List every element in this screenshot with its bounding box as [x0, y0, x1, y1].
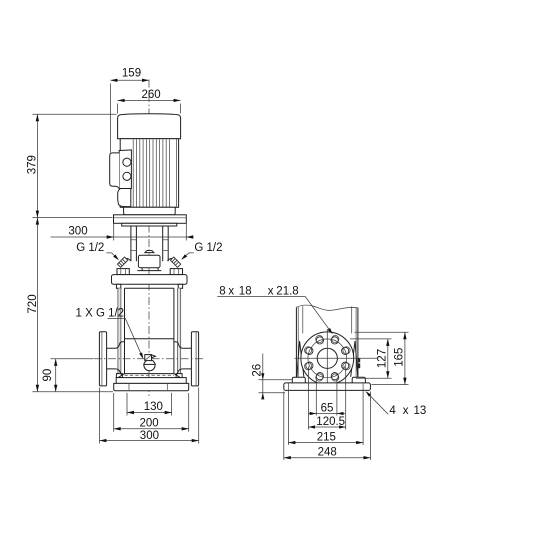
pump head flange: [112, 275, 188, 285]
dimension 159 line: [110, 79, 149, 81]
bolt circle: [308, 339, 347, 378]
side view body outer lines: [296, 307, 358, 377]
svg-text:159: 159: [122, 68, 141, 80]
motor cooling fins: [133, 139, 169, 207]
motor adapter ring: [124, 207, 176, 215]
dimension 120.5 line: [308, 426, 345, 428]
dimension 200 line: [114, 428, 189, 430]
dimension 720 bottom extension: [32, 391, 113, 393]
dimension 300 extension lines (port to port): [99, 388, 198, 444]
dimension 200 extension lines: [114, 393, 189, 432]
vertical centerline of pump front view: [148, 80, 150, 397]
port horizontal centerline: [94, 358, 205, 360]
gusset right: [351, 341, 358, 377]
dimension 720 line: [36, 218, 38, 392]
coupling guard right: [163, 226, 169, 261]
dimension 127 extension lines: [350, 339, 392, 378]
pump head contour right: [167, 258, 171, 260]
svg-text:165: 165: [394, 348, 406, 367]
svg-text:130: 130: [144, 401, 163, 413]
hidden line at base (dashed): [125, 374, 174, 376]
suction flange left (edge view): [99, 332, 106, 386]
staybolt right: [178, 288, 181, 373]
flange bolt holes 8 x 18 (doubled spot-face circles): [342, 347, 349, 354]
dimension 260 extension lines: [118, 104, 181, 114]
foot left side view: [292, 377, 305, 383]
staybolt washer left under flange: [116, 284, 120, 288]
shaft coupling block: [138, 255, 160, 268]
svg-text:G 1/2: G 1/2: [194, 242, 222, 254]
motor fan cover cap: [118, 114, 181, 139]
svg-text:200: 200: [140, 417, 159, 429]
dimension 248 extension lines: [284, 392, 371, 461]
svg-text:21.8: 21.8: [276, 286, 298, 298]
staybolt hex nut right: [170, 269, 182, 275]
coupling lower neck: [137, 268, 161, 271]
dimension 215 line: [288, 442, 363, 444]
motor stool lower plate: [122, 223, 177, 226]
side view body inner lines: [298, 306, 356, 377]
dimension 65 extension lines: [316, 379, 337, 416]
flange bore circle: [317, 348, 337, 368]
dimension 120.5 extension lines: [308, 367, 345, 430]
dimension 165 extension lines: [354, 332, 408, 384]
foot right side view: [352, 377, 365, 383]
dimension 90 line: [55, 359, 57, 392]
staybolt bottom nut right: [176, 374, 182, 378]
svg-text:65: 65: [321, 402, 334, 414]
base bottom plate: [114, 383, 189, 390]
break line (wavy) at top of side view: [297, 305, 358, 310]
chamber joint line: [125, 338, 174, 340]
svg-text:720: 720: [27, 294, 39, 313]
svg-text:379: 379: [26, 155, 38, 174]
port flange outer circle: [301, 332, 354, 385]
staybolt washer right under flange: [178, 284, 182, 288]
chamber stack sleeve: [125, 288, 174, 373]
dimension 260 line: [118, 99, 181, 101]
dimension 300 motor stool line: [51, 236, 192, 238]
svg-text:18: 18: [239, 286, 252, 298]
dimension 127 line: [387, 339, 389, 378]
motor stool top plate: [114, 215, 187, 224]
staybolt bottom nut left: [116, 374, 122, 378]
svg-text:G 1/2: G 1/2: [76, 242, 104, 254]
dimension 26 line: [262, 354, 264, 400]
dimension 379 line: [36, 114, 38, 217]
gusset left (hidden port): [297, 341, 304, 377]
dimension 65 line: [308, 413, 345, 415]
svg-text:26: 26: [252, 364, 264, 377]
dimension 159 extension line: [109, 84, 111, 153]
drain plug G 1/2: [144, 360, 155, 371]
dimension 300 motor stool extension lines: [114, 224, 187, 241]
dimension 300 line (port to port): [99, 440, 198, 442]
coupling guard left: [131, 226, 137, 261]
suction port neck left: [107, 342, 125, 376]
side plug boss (dark): [357, 358, 360, 362]
svg-text:90: 90: [42, 369, 54, 382]
svg-text:215: 215: [317, 431, 336, 443]
base upper plate: [116, 378, 186, 384]
dimension 248 line: [284, 457, 371, 459]
base plate side view: [284, 383, 371, 391]
terminal box mounting plate: [119, 150, 131, 189]
svg-text:120.5: 120.5: [316, 416, 345, 428]
svg-text:8: 8: [219, 286, 225, 298]
flange center cross lines: [326, 329, 328, 388]
svg-text:300: 300: [140, 430, 159, 442]
staybolt hex nut left: [117, 269, 129, 275]
dimension 130 line: [127, 412, 172, 414]
terminal box lower conduit box: [118, 189, 131, 207]
svg-text:13: 13: [414, 405, 427, 417]
dimension 130 extension lines: [127, 393, 172, 416]
discharge flange right (edge view): [191, 332, 198, 386]
shaft coupling dome cap: [145, 250, 154, 252]
svg-text:x: x: [228, 286, 234, 298]
staybolt left: [118, 288, 121, 373]
G 1/2 priming plug right (hatched): [170, 257, 180, 267]
dimension 26 extension lines: [259, 380, 293, 393]
dimension 379 extension lines: [32, 114, 116, 217]
terminal box screw upper: [123, 158, 131, 166]
dimension 90 extension line: [51, 358, 94, 360]
sleeve bottom flare: [118, 374, 180, 378]
svg-text:4: 4: [389, 405, 396, 417]
dimension 165 line: [404, 332, 406, 384]
svg-text:260: 260: [142, 89, 161, 101]
discharge port neck right: [174, 342, 192, 376]
svg-text:248: 248: [318, 446, 337, 458]
svg-text:127: 127: [377, 349, 389, 368]
G 1/2 priming plug left (hatched): [117, 257, 127, 267]
base bolt slot marks: [129, 383, 167, 390]
terminal box cover: [110, 153, 120, 189]
svg-text:x: x: [268, 286, 274, 298]
motor body: [120, 139, 178, 208]
svg-text:1 X G 1/2: 1 X G 1/2: [76, 307, 125, 319]
terminal box screw lower: [123, 172, 131, 180]
pump head contour left: [126, 258, 130, 260]
svg-text:300: 300: [68, 226, 87, 238]
dimension 215 extension lines: [288, 391, 363, 445]
svg-text:x: x: [403, 405, 409, 417]
